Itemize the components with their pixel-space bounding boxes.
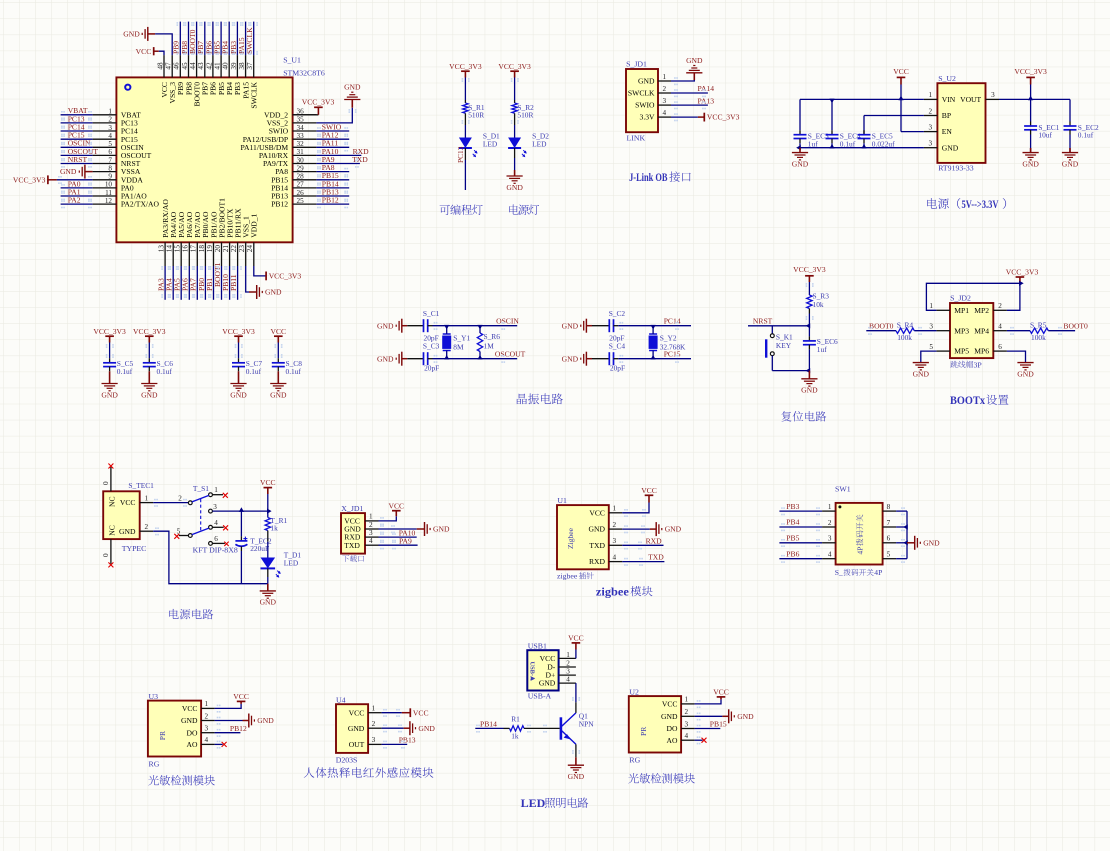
svg-text:RXD: RXD — [646, 536, 663, 545]
svg-text:41: 41 — [214, 62, 222, 70]
svg-text:S_Y1: S_Y1 — [453, 334, 470, 343]
svg-text:1: 1 — [929, 302, 933, 310]
svg-text:2: 2 — [108, 116, 112, 124]
svg-text:1: 1 — [828, 503, 832, 511]
svg-text:NC: NC — [107, 525, 116, 536]
svg-text:VCC_3V3: VCC_3V3 — [793, 265, 826, 274]
svg-text:42: 42 — [205, 62, 213, 70]
svg-text:S_U1: S_U1 — [283, 55, 301, 64]
svg-text:48: 48 — [156, 62, 164, 70]
svg-text:GND: GND — [638, 77, 655, 86]
svg-text:PC13: PC13 — [456, 146, 465, 163]
svg-text:VDD_1: VDD_1 — [250, 213, 259, 237]
svg-text:28: 28 — [297, 173, 305, 181]
svg-text:45: 45 — [181, 62, 189, 70]
svg-text:4: 4 — [214, 519, 218, 527]
svg-text:USB-A: USB-A — [528, 692, 552, 701]
svg-text:OSCOUT: OSCOUT — [495, 350, 526, 359]
svg-text:1: 1 — [369, 513, 373, 521]
svg-text:PB3: PB3 — [786, 502, 799, 511]
svg-text:RG: RG — [629, 755, 640, 764]
svg-text:USB1: USB1 — [528, 641, 547, 650]
svg-text:3: 3 — [991, 91, 995, 99]
svg-text:2: 2 — [566, 659, 570, 667]
svg-text:TXD: TXD — [344, 541, 360, 550]
svg-text:5: 5 — [108, 140, 112, 148]
svg-text:GND: GND — [562, 354, 579, 363]
svg-text:PA14: PA14 — [698, 84, 715, 93]
svg-text:VCC: VCC — [349, 708, 365, 717]
svg-text:0.1uf: 0.1uf — [246, 367, 262, 376]
svg-text:D203S: D203S — [336, 756, 358, 765]
svg-text:0.1uf: 0.1uf — [840, 139, 856, 148]
svg-text:15: 15 — [174, 245, 182, 253]
svg-text:VCC_3V3: VCC_3V3 — [269, 272, 302, 281]
svg-text:PA9: PA9 — [399, 536, 412, 545]
svg-text:6: 6 — [108, 148, 112, 156]
svg-text:37: 37 — [246, 62, 254, 70]
svg-text:2: 2 — [205, 712, 209, 720]
svg-text:GND: GND — [1022, 159, 1039, 168]
svg-text:J-Link OB: J-Link OB — [629, 172, 668, 184]
svg-text:21: 21 — [222, 245, 230, 253]
svg-text:zigbee: zigbee — [557, 572, 578, 581]
svg-text:PB12: PB12 — [230, 724, 247, 733]
svg-text:14: 14 — [166, 245, 174, 253]
svg-text:27: 27 — [297, 181, 305, 189]
svg-text:U3: U3 — [149, 692, 159, 701]
svg-text:44: 44 — [189, 62, 197, 70]
svg-text:VCC_3V3: VCC_3V3 — [133, 327, 166, 336]
svg-text:AO: AO — [667, 736, 678, 745]
svg-text:2: 2 — [828, 519, 832, 527]
svg-text:20: 20 — [214, 245, 222, 253]
svg-text:LED: LED — [521, 796, 546, 810]
svg-text:5: 5 — [887, 551, 891, 559]
svg-text:12: 12 — [105, 197, 113, 205]
svg-text:GND: GND — [686, 56, 703, 65]
svg-text:13: 13 — [158, 245, 166, 253]
svg-text:EN: EN — [942, 127, 953, 136]
svg-text:MP2: MP2 — [974, 306, 989, 315]
svg-text:GND: GND — [257, 716, 274, 725]
svg-text:34: 34 — [297, 124, 305, 132]
svg-text:39: 39 — [230, 62, 238, 70]
svg-text:2: 2 — [372, 720, 376, 728]
svg-text:PR: PR — [639, 726, 648, 736]
svg-text:SWIO: SWIO — [635, 101, 655, 110]
svg-text:GND: GND — [801, 386, 818, 395]
svg-text:VCC_3V3: VCC_3V3 — [707, 113, 740, 122]
svg-text:PB15: PB15 — [710, 720, 727, 729]
svg-text:1: 1 — [145, 494, 149, 502]
svg-text:1k: 1k — [270, 524, 278, 533]
svg-text:T_S1: T_S1 — [193, 484, 209, 493]
svg-text:8: 8 — [108, 164, 112, 172]
svg-text:GND: GND — [141, 390, 158, 399]
svg-text:0.022uf: 0.022uf — [872, 139, 895, 148]
svg-text:1uf: 1uf — [808, 139, 818, 148]
svg-text:GND: GND — [562, 321, 579, 330]
svg-text:7: 7 — [887, 519, 891, 527]
svg-text:DO: DO — [667, 724, 678, 733]
svg-text:VCC_3V3: VCC_3V3 — [1014, 67, 1047, 76]
svg-text:KEY: KEY — [776, 341, 792, 350]
svg-text:GND: GND — [737, 712, 754, 721]
svg-text:1: 1 — [108, 108, 112, 116]
svg-text:KFT DIP-8X8: KFT DIP-8X8 — [193, 545, 238, 554]
svg-text:1: 1 — [372, 705, 376, 713]
svg-text:8: 8 — [887, 503, 891, 511]
svg-text:GND: GND — [260, 598, 277, 607]
svg-text:3: 3 — [929, 123, 933, 131]
svg-text:47: 47 — [165, 62, 173, 70]
svg-text:OUT: OUT — [349, 740, 365, 749]
svg-text:18: 18 — [198, 245, 206, 253]
svg-text:MP5: MP5 — [954, 347, 969, 356]
svg-text:2: 2 — [998, 302, 1002, 310]
svg-text:3: 3 — [108, 124, 112, 132]
svg-text:1uf: 1uf — [817, 345, 827, 354]
svg-text:0.1uf: 0.1uf — [117, 367, 133, 376]
svg-text:3: 3 — [372, 736, 376, 744]
svg-text:VCC_3V3: VCC_3V3 — [13, 175, 46, 184]
svg-text:zigbee: zigbee — [596, 586, 629, 598]
svg-text:X_JD1: X_JD1 — [341, 504, 363, 513]
svg-text:GND: GND — [1062, 159, 1079, 168]
svg-text:29: 29 — [297, 164, 305, 172]
svg-text:PB14: PB14 — [480, 719, 497, 728]
svg-text:2: 2 — [369, 521, 373, 529]
svg-text:MP1: MP1 — [954, 306, 969, 315]
svg-text:4: 4 — [685, 732, 689, 740]
svg-text:4: 4 — [108, 132, 112, 140]
svg-text:3: 3 — [929, 323, 933, 331]
svg-text:100k: 100k — [1031, 333, 1046, 342]
svg-text:1k: 1k — [511, 731, 519, 740]
svg-text:510R: 510R — [517, 111, 533, 120]
svg-text:NRST: NRST — [68, 155, 88, 164]
svg-text:GND: GND — [665, 525, 682, 534]
svg-text:0.1uf: 0.1uf — [286, 367, 302, 376]
svg-text:4: 4 — [663, 109, 667, 117]
svg-text:3: 3 — [205, 725, 209, 733]
svg-text:VCC_3V3: VCC_3V3 — [93, 327, 126, 336]
svg-text:VCC: VCC — [233, 692, 249, 701]
svg-text:TXD: TXD — [589, 541, 605, 550]
svg-text:3.3V: 3.3V — [640, 113, 655, 122]
svg-text:STM32C8T6: STM32C8T6 — [283, 68, 325, 77]
svg-text:PR: PR — [158, 730, 167, 740]
svg-text:GND: GND — [1017, 369, 1034, 378]
svg-text:S_: S_ — [835, 568, 843, 577]
svg-text:OSCIN: OSCIN — [496, 317, 519, 326]
svg-text:PB5: PB5 — [786, 534, 799, 543]
svg-text:PB12: PB12 — [322, 196, 339, 205]
svg-text:U1: U1 — [557, 496, 567, 505]
svg-text:2: 2 — [663, 85, 667, 93]
svg-text:GND: GND — [418, 724, 435, 733]
svg-text:4: 4 — [369, 537, 373, 545]
svg-text:BP: BP — [942, 111, 951, 120]
svg-text:VCC: VCC — [641, 486, 657, 495]
svg-text:PA13: PA13 — [698, 96, 715, 105]
svg-text:VCC: VCC — [270, 327, 286, 336]
svg-text:2: 2 — [178, 495, 182, 503]
svg-text:22: 22 — [230, 245, 238, 253]
svg-text:3: 3 — [213, 503, 217, 511]
svg-text:TXD: TXD — [648, 553, 664, 562]
svg-text:46: 46 — [173, 62, 181, 70]
svg-text:VCC: VCC — [589, 508, 605, 517]
svg-text:S_JD1: S_JD1 — [626, 59, 647, 68]
svg-text:100k: 100k — [897, 333, 912, 342]
svg-text:VCC_3V3: VCC_3V3 — [449, 62, 482, 71]
svg-text:1: 1 — [929, 91, 933, 99]
svg-text:GND: GND — [60, 167, 77, 176]
svg-text:U2: U2 — [629, 687, 639, 696]
svg-text:S_C2: S_C2 — [609, 309, 626, 318]
svg-text:8M: 8M — [453, 343, 464, 352]
svg-text:VCC: VCC — [260, 478, 276, 487]
svg-text:GND: GND — [913, 369, 930, 378]
svg-text:3P: 3P — [974, 360, 983, 369]
svg-text:1: 1 — [566, 651, 570, 659]
svg-text:24: 24 — [246, 245, 254, 253]
svg-text:16: 16 — [182, 245, 190, 253]
svg-text:5: 5 — [929, 343, 933, 351]
svg-text:32.768K: 32.768K — [660, 343, 686, 352]
svg-text:MP4: MP4 — [974, 326, 989, 335]
svg-text:30: 30 — [297, 156, 305, 164]
svg-text:GND: GND — [181, 716, 198, 725]
svg-text:RG: RG — [149, 759, 160, 768]
svg-text:MP3: MP3 — [954, 326, 969, 335]
svg-text:VCC: VCC — [182, 704, 198, 713]
svg-text:GND: GND — [942, 143, 959, 152]
svg-text:VCC: VCC — [136, 47, 152, 56]
svg-text:3: 3 — [566, 668, 570, 676]
svg-text:R1: R1 — [511, 715, 520, 724]
svg-text:GND: GND — [661, 712, 678, 721]
svg-text:10: 10 — [105, 181, 113, 189]
svg-text:7: 7 — [108, 156, 112, 164]
svg-text:35: 35 — [297, 116, 305, 124]
svg-text:LED: LED — [532, 140, 547, 149]
svg-text:GND: GND — [539, 679, 556, 688]
svg-text:VCC: VCC — [413, 708, 429, 717]
svg-text:1: 1 — [685, 696, 689, 704]
svg-text:4P: 4P — [874, 568, 882, 577]
svg-text:PB4: PB4 — [786, 518, 799, 527]
svg-text:S_TEC1: S_TEC1 — [128, 481, 154, 490]
svg-text:NPN: NPN — [579, 720, 594, 729]
svg-text:3: 3 — [613, 537, 617, 545]
svg-text:4: 4 — [566, 676, 570, 684]
svg-text:32: 32 — [297, 140, 305, 148]
svg-text:3: 3 — [369, 529, 373, 537]
svg-text:GND: GND — [101, 390, 118, 399]
svg-text:DO: DO — [187, 728, 198, 737]
svg-text:GND: GND — [230, 390, 247, 399]
svg-text:0.1uf: 0.1uf — [1078, 131, 1094, 140]
svg-text:3: 3 — [685, 720, 689, 728]
svg-text:S_Y2: S_Y2 — [660, 334, 677, 343]
svg-text:LINK: LINK — [627, 134, 646, 143]
svg-text:LED: LED — [284, 559, 299, 568]
svg-text:AO: AO — [187, 740, 198, 749]
svg-text:17: 17 — [190, 245, 198, 253]
svg-text:TXD: TXD — [352, 155, 368, 164]
svg-text:1: 1 — [663, 73, 667, 81]
svg-text:S_C1: S_C1 — [423, 309, 440, 318]
svg-text:10uf: 10uf — [1038, 131, 1052, 140]
svg-text:GND: GND — [506, 183, 523, 192]
svg-text:VOUT: VOUT — [960, 95, 981, 104]
svg-text:NC: NC — [107, 496, 116, 507]
svg-text:PB12: PB12 — [271, 200, 288, 209]
svg-text:S_R6: S_R6 — [484, 332, 501, 341]
svg-text:19: 19 — [206, 245, 214, 253]
svg-text:38: 38 — [238, 62, 246, 70]
svg-text:25: 25 — [297, 197, 305, 205]
svg-text:20pF: 20pF — [610, 364, 625, 373]
svg-text:0: 0 — [102, 553, 110, 557]
svg-text:VCC: VCC — [662, 700, 678, 709]
svg-text:GND: GND — [344, 83, 361, 92]
svg-text:SW1: SW1 — [835, 484, 851, 493]
svg-text:NRST: NRST — [753, 317, 773, 326]
svg-text:VCC: VCC — [893, 67, 909, 76]
svg-text:40: 40 — [222, 62, 230, 70]
svg-text:2: 2 — [685, 708, 689, 716]
svg-text:GND: GND — [568, 772, 585, 781]
svg-text:PC14: PC14 — [664, 317, 681, 326]
svg-text:PA2: PA2 — [68, 196, 81, 205]
svg-text:5V-->3.3V: 5V-->3.3V — [962, 199, 999, 211]
svg-text:20pF: 20pF — [424, 364, 439, 373]
svg-text:LED: LED — [483, 140, 498, 149]
svg-text:220uF: 220uF — [250, 544, 269, 553]
svg-text:43: 43 — [197, 62, 205, 70]
svg-text:2: 2 — [613, 521, 617, 529]
svg-text:Zigbee: Zigbee — [566, 527, 575, 549]
svg-text:PB11: PB11 — [229, 274, 238, 291]
svg-text:510R: 510R — [468, 111, 484, 120]
svg-text:S_R4: S_R4 — [897, 321, 914, 330]
svg-text:TYPEC: TYPEC — [122, 544, 147, 553]
svg-text:S_R5: S_R5 — [1030, 321, 1047, 330]
svg-text:RT9193-33: RT9193-33 — [938, 163, 974, 172]
svg-text:GND: GND — [377, 354, 394, 363]
svg-text:S_C4: S_C4 — [609, 342, 626, 351]
svg-text:VCC_3V3: VCC_3V3 — [1006, 268, 1039, 277]
svg-text:GND: GND — [119, 527, 136, 536]
svg-text:GND: GND — [923, 538, 940, 547]
svg-text:VCC_3V3: VCC_3V3 — [302, 98, 335, 107]
svg-text:VCC: VCC — [713, 688, 729, 697]
svg-text:1: 1 — [613, 505, 617, 513]
svg-text:4: 4 — [205, 736, 209, 744]
svg-text:4: 4 — [998, 323, 1002, 331]
svg-text:11: 11 — [105, 189, 112, 197]
svg-text:PB6: PB6 — [786, 549, 799, 558]
svg-text:1: 1 — [205, 700, 209, 708]
svg-text:2: 2 — [145, 523, 149, 531]
svg-text:10k: 10k — [813, 300, 824, 309]
svg-text:6: 6 — [998, 343, 1002, 351]
svg-text:3: 3 — [828, 535, 832, 543]
svg-text:3: 3 — [663, 97, 667, 105]
svg-text:4: 4 — [828, 551, 832, 559]
svg-text:26: 26 — [297, 189, 305, 197]
svg-text:GND: GND — [270, 390, 287, 399]
svg-text:GND: GND — [265, 288, 282, 297]
svg-text:GND: GND — [433, 525, 450, 534]
svg-text:SWCLK: SWCLK — [628, 89, 655, 98]
svg-text:U4: U4 — [336, 696, 346, 705]
svg-text:S_JD2: S_JD2 — [950, 294, 971, 303]
svg-text:GND: GND — [348, 724, 365, 733]
svg-text:SWCLK: SWCLK — [250, 81, 259, 108]
svg-text:31: 31 — [297, 148, 305, 156]
svg-text:VCC: VCC — [388, 501, 404, 510]
svg-text:VCC: VCC — [568, 634, 584, 643]
svg-text:GND: GND — [377, 321, 394, 330]
svg-text:BOOT0: BOOT0 — [1063, 321, 1088, 330]
svg-text:BOOT0: BOOT0 — [869, 321, 894, 330]
svg-text:S_C3: S_C3 — [423, 342, 440, 351]
svg-text:MP6: MP6 — [974, 347, 989, 356]
svg-text:2: 2 — [929, 107, 933, 115]
svg-text:0: 0 — [102, 481, 110, 485]
svg-text:4: 4 — [613, 553, 617, 561]
svg-text:3: 3 — [929, 140, 933, 148]
svg-text:VCC_3V3: VCC_3V3 — [498, 62, 531, 71]
svg-text:1M: 1M — [484, 342, 495, 351]
svg-text:0.1uf: 0.1uf — [157, 367, 173, 376]
svg-text:6: 6 — [887, 535, 891, 543]
svg-text:VIN: VIN — [942, 95, 956, 104]
svg-text:S_U2: S_U2 — [938, 74, 956, 83]
svg-text:VCC_3V3: VCC_3V3 — [222, 327, 255, 336]
svg-text:PB13: PB13 — [399, 736, 416, 745]
svg-text:33: 33 — [297, 132, 305, 140]
svg-text:VCC: VCC — [120, 498, 136, 507]
svg-text:23: 23 — [238, 245, 246, 253]
svg-text:BOOTx: BOOTx — [950, 393, 985, 407]
svg-text:9: 9 — [108, 173, 112, 181]
svg-text:GND: GND — [123, 30, 140, 39]
svg-text:4P: 4P — [856, 547, 865, 555]
svg-text:1: 1 — [214, 486, 218, 494]
svg-text:PA2/TX/AO: PA2/TX/AO — [121, 200, 160, 209]
svg-text:GND: GND — [792, 159, 809, 168]
svg-text:6: 6 — [214, 535, 218, 543]
svg-text:GND: GND — [589, 525, 606, 534]
svg-text:RXD: RXD — [589, 557, 606, 566]
svg-text:SWCLK: SWCLK — [245, 27, 254, 54]
